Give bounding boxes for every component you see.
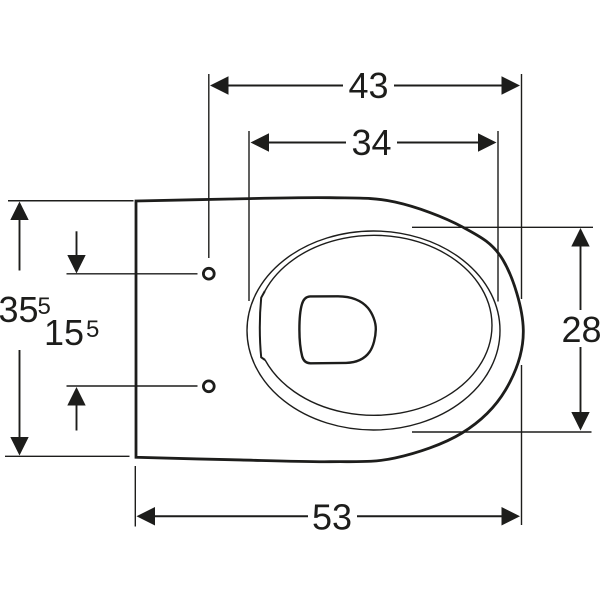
- dim 34: left arrowhead: [251, 133, 270, 151]
- drain outline: [299, 296, 375, 363]
- svg-text:28: 28: [562, 309, 600, 350]
- svg-text:43: 43: [349, 65, 389, 106]
- seat ring outer: [247, 231, 500, 430]
- dim 43: right extension line upper: [521, 74, 523, 299]
- dim 35.5: down arrowhead: [10, 437, 28, 456]
- dim 43: dimension line: [226, 85, 343, 87]
- dim 15.5: lower tail line: [76, 405, 78, 431]
- dim 28: up arrowhead: [571, 228, 589, 247]
- dim 28: dimension line lower: [580, 347, 582, 413]
- dim 15.5: up arrowhead: [67, 387, 85, 406]
- svg-text:5: 5: [86, 316, 99, 343]
- dim 53: right arrowhead: [502, 507, 521, 526]
- dim 43: right arrowhead: [502, 76, 521, 94]
- svg-text:34: 34: [352, 122, 392, 163]
- dim 34: left extension line: [248, 131, 250, 301]
- dim 34: dimension line: [264, 142, 346, 144]
- dim 28: bottom reference line: [412, 431, 592, 433]
- dim 34: right arrowhead: [478, 133, 497, 151]
- dim 35.5: up arrowhead: [10, 202, 28, 221]
- dim 35.5: top reference line: [8, 200, 134, 202]
- dim 35.5: bottom reference line: [5, 455, 130, 457]
- dim 28: dimension line upper: [580, 245, 582, 310]
- dim 15.5: upper tail line: [76, 231, 78, 256]
- toilet outline: [136, 198, 523, 462]
- dim 28: down arrowhead: [571, 412, 589, 431]
- dim 53: dimension line: [150, 515, 308, 517]
- seat ring inner: elliptical part: [265, 235, 492, 415]
- mounting hole bottom: [203, 381, 214, 392]
- dim 43/53: right extension line lower: [521, 365, 523, 525]
- dim 15.5: down arrowhead: [67, 255, 85, 274]
- dim 15.5: bottom reference line: [67, 385, 198, 387]
- dim 28: top reference line: [412, 226, 593, 228]
- dim 53: left arrowhead: [137, 507, 156, 526]
- dim 35.5: dimension line upper: [19, 218, 21, 271]
- svg-text:53: 53: [312, 497, 352, 538]
- dim 43: left extension line: [208, 74, 210, 258]
- svg-text:35: 35: [0, 289, 39, 330]
- dim 35.5: dimension line lower: [19, 350, 21, 439]
- svg-text:15: 15: [44, 312, 84, 353]
- dim 15.5: top reference line: [67, 273, 198, 275]
- dim 53: left extension line: [134, 466, 136, 527]
- seat ring inner: flattened left edge with notches: [260, 291, 265, 360]
- mounting hole top: [203, 268, 214, 279]
- dim 43: left arrowhead: [210, 76, 229, 94]
- dim 34: right extension line: [497, 131, 499, 302]
